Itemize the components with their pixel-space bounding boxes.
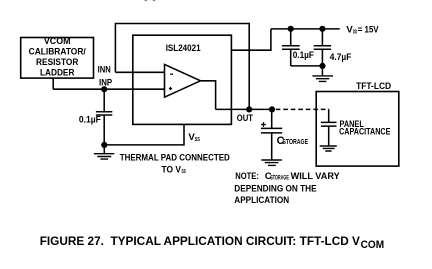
value label C4 CSTORAGE [277,135,309,147]
text THERMAL PAD CONNECTED TO VSS [120,153,230,176]
capacitor C3 4.7uF decoupling [314,29,331,66]
op-amp plus input marking [169,87,172,90]
svg-text:NOTE:: NOTE: [235,171,259,182]
ground G1 below C1 [94,145,115,159]
capacitor C4 CSTORAGE [261,109,282,159]
polarity plus marking C4 [261,122,266,127]
capacitor C1 0.1uF on INP [96,89,112,145]
op-amp A1 triangle [165,64,201,97]
IC U1 ISL24021 box [133,35,232,124]
svg-text:STORAGE: STORAGE [282,139,308,146]
svg-text:STORAGE: STORAGE [270,176,289,182]
svg-text:0.1µF: 0.1µF [79,114,101,125]
svg-text:COM: COM [361,239,385,251]
note text NOTE: CSTORAGE WILL VARY DEPENDING ON THE APPLICATION [234,171,340,206]
caption FIGURE 27 TYPICAL APPLICATION CIRCUIT: TFT-LCD VCOM [40,234,384,251]
label PANEL CAPACITANCE [339,119,391,138]
wire VDD pin to rail [231,29,271,50]
svg-text:INP: INP [99,77,113,88]
svg-text:LADDER: LADDER [40,68,75,78]
stray page crop marks top [145,0,148,1]
label VDD = 15V [346,25,379,36]
wire VSS net to thermal pad [104,124,184,144]
wire decoupling ground bus [291,65,323,67]
node OUT junction at feedback [246,106,252,112]
svg-text:CALIBRATOR/: CALIBRATOR/ [29,47,87,57]
box B2 TFT-LCD [316,81,399,166]
node OUT junction at storage cap [269,106,275,112]
node ground bus [319,63,325,69]
ground G2 decoupling [312,66,333,82]
pin label VSS [188,132,200,143]
capacitor C5 panel capacitance [321,109,337,145]
wire OUT net [216,108,272,110]
wire op-amp output [201,81,216,110]
svg-text:APPLICATION: APPLICATION [234,195,289,206]
op-amp minus input marking [170,73,173,75]
wire from B1 bottom down to INP net [52,78,54,89]
svg-text:INN: INN [98,64,111,75]
svg-text:SS: SS [182,169,186,175]
node VDD rail at C2 [288,26,294,32]
svg-text:= 15V: = 15V [358,25,380,36]
svg-text:TO V: TO V [162,164,182,175]
wire INN horizontal into op-amp - input [115,71,165,73]
svg-text:VCOM: VCOM [44,36,71,46]
capacitor C2 0.1uF decoupling [282,29,300,66]
node VSS junction [101,142,107,148]
wire INP net horizontal into op-amp + input [53,88,165,90]
svg-text:THERMAL PAD CONNECTED: THERMAL PAD CONNECTED [120,153,230,164]
svg-text:CAPACITANCE: CAPACITANCE [339,127,391,138]
ground G4 panel [320,146,337,151]
wire feedback loop OUT to INN [115,24,249,110]
ground G3 storage [261,160,282,165]
node VDD rail at C3 [319,26,325,32]
svg-text:TFT-LCD: TFT-LCD [356,81,391,92]
svg-text:DEPENDING ON THE: DEPENDING ON THE [234,183,317,194]
svg-text:WILL VARY: WILL VARY [291,171,341,182]
svg-text:4.7µF: 4.7µF [330,52,352,63]
node INP junction [101,86,107,92]
wire VDD rail [271,28,340,30]
box B1 VCOM CALIBRATOR / RESISTOR LADDER [21,36,94,78]
svg-text:RESISTOR: RESISTOR [36,57,79,67]
svg-text:OUT: OUT [237,113,253,124]
svg-text:ISL24021: ISL24021 [166,43,201,54]
svg-text:FIGURE 27. TYPICAL APPLICATIO: FIGURE 27. TYPICAL APPLICATION CIRCUIT: … [40,234,361,248]
svg-text:SS: SS [195,137,201,143]
wire dashed OUT to panel [276,108,329,110]
svg-text:0.1µF: 0.1µF [293,50,314,61]
